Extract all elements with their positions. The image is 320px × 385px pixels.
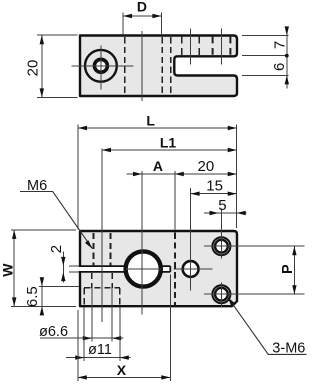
dimension W extension lines <box>11 230 76 307</box>
dimension L line <box>78 127 237 129</box>
centerline small hole horizontal <box>174 268 213 270</box>
extension line slot bottom (A/20) <box>174 171 176 230</box>
hidden M6 clamp tap right wall <box>110 233 112 265</box>
hidden phi11 right wall <box>119 288 121 305</box>
dimension phi11 line <box>66 357 131 359</box>
dimension P line <box>293 246 295 294</box>
hidden line bore right wall <box>161 37 163 95</box>
dimension A / 20 line <box>127 173 237 175</box>
counterbore hole inner (phi6.6) top view <box>94 59 107 72</box>
dimension phi6.6 line <box>40 337 124 339</box>
hidden line slit relief end <box>170 37 172 95</box>
counterbore circle outer (phi11) top view <box>85 50 117 82</box>
dimension phi11 extension lines <box>84 307 120 361</box>
svg-text:6.5: 6.5 <box>24 286 41 307</box>
dimension 7/6 line <box>286 27 288 89</box>
centerline counterbore horizontal <box>72 65 134 67</box>
dimension 20 extension lines <box>37 35 77 97</box>
dimension 20 line <box>41 35 43 97</box>
slit lines <box>80 266 126 272</box>
hidden hole small right wall (prong) <box>198 37 200 56</box>
leader M6 <box>20 192 92 249</box>
dimension D line <box>123 15 161 17</box>
centerline clamp screw axis <box>101 149 103 323</box>
slit gap white <box>78 267 128 271</box>
dimension L1 line <box>102 149 237 151</box>
svg-text:5: 5 <box>218 197 226 214</box>
centerline M6 bottom horizontal <box>204 293 305 295</box>
dimension 6.5 line <box>41 278 43 316</box>
dimension 15 line <box>191 193 237 195</box>
notch band white <box>127 265 162 273</box>
dimension D extension lines <box>123 13 161 34</box>
svg-text:L1: L1 <box>160 134 177 150</box>
svg-text:A: A <box>153 158 163 174</box>
M6 hole bottom outer circle <box>212 285 230 303</box>
leader 3-M6 <box>228 297 307 354</box>
centerline main bore front view <box>141 171 143 315</box>
dimension 5 line <box>204 212 247 214</box>
hidden phi11 left wall <box>83 288 85 305</box>
centerline small hole vertical <box>190 188 192 291</box>
hidden phi6.6 left wall <box>91 273 93 288</box>
svg-text:15: 15 <box>206 178 223 195</box>
centerline M6 top horizontal <box>204 245 305 247</box>
part body top view <box>80 36 237 97</box>
extension line right edge up <box>236 125 238 229</box>
svg-text:20: 20 <box>198 158 215 175</box>
hidden counterbore shoulder <box>84 287 120 289</box>
part body front view <box>80 231 237 306</box>
centerline counterbore vertical <box>100 46 102 90</box>
dimension X extension lines <box>78 275 171 382</box>
dimension 2 line <box>62 252 64 283</box>
svg-text:L: L <box>146 112 155 128</box>
dimension X line <box>78 376 171 378</box>
svg-text:ø11: ø11 <box>88 342 112 358</box>
svg-text:W: W <box>0 263 15 277</box>
hidden phi6.6 right wall <box>111 273 113 288</box>
slit notch left <box>126 264 137 274</box>
centerline main bore horizontal <box>126 268 162 270</box>
slit notch right and relief <box>150 264 171 274</box>
svg-text:X: X <box>117 362 127 378</box>
hidden M6 hole right wall (prong) <box>229 37 231 56</box>
main bore circle <box>126 251 161 286</box>
svg-text:20: 20 <box>25 60 42 77</box>
centerline M6 top vertical <box>220 209 222 259</box>
dimension phi6.6 extension lines <box>92 288 112 342</box>
small hole circle <box>183 261 199 277</box>
centerline main bore top view <box>141 31 143 101</box>
M6 hole bottom inner circle <box>215 288 228 301</box>
centerline M6 hole top view <box>221 29 223 65</box>
hidden line bore left wall <box>124 37 126 95</box>
dimension 6.5 extension line <box>39 285 79 287</box>
extension line left edge up <box>77 125 79 230</box>
dimension 2 extension lines <box>69 266 79 272</box>
dimension 7/6 extension lines <box>242 35 289 75</box>
hidden hole small left wall (prong) <box>181 37 183 56</box>
M6 hole top inner circle <box>215 240 228 253</box>
svg-text:ø6.6: ø6.6 <box>39 324 68 340</box>
M6 hole top outer circle <box>212 237 230 255</box>
hidden M6 hole left wall (prong) <box>212 37 214 56</box>
centerline small hole top view <box>190 29 192 65</box>
svg-text:D: D <box>137 0 147 15</box>
dimension W line <box>13 230 15 307</box>
svg-text:2: 2 <box>48 245 65 253</box>
svg-text:P: P <box>280 264 296 274</box>
hidden slot bottom projection <box>174 233 176 306</box>
svg-text:7: 7 <box>271 41 288 49</box>
centerline M6 bottom vertical <box>220 283 222 308</box>
svg-text:6: 6 <box>271 63 288 71</box>
relief white <box>162 267 170 271</box>
hidden M6 clamp tap left wall <box>92 233 94 265</box>
